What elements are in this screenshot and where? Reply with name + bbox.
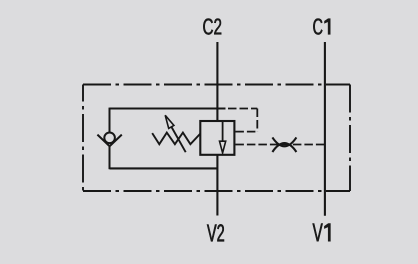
enclosure dashed boundary top edge bbox=[83, 84, 350, 86]
relief valve flow arrowhead bbox=[220, 141, 226, 153]
port label V2 bbox=[207, 224, 224, 241]
pilot line dashed: return into valve body bbox=[235, 131, 257, 133]
orifice lower arc bbox=[272, 143, 296, 152]
port label V1 bbox=[313, 224, 331, 242]
relief valve flow arrow shaft bbox=[222, 121, 224, 142]
pilot line dashed: top run from junction bbox=[228, 108, 257, 110]
enclosure dashed boundary left edge bbox=[82, 85, 84, 192]
wire: check valve upper stem bbox=[109, 108, 111, 133]
port line C2-V2 bbox=[216, 42, 218, 216]
adjustable spring bbox=[152, 133, 200, 145]
orifice upper arc bbox=[272, 137, 296, 146]
port label C1 bbox=[313, 19, 330, 35]
check valve seat bbox=[97, 135, 121, 147]
port label C2 bbox=[203, 19, 221, 35]
wire: check valve lower stem bbox=[109, 146, 111, 170]
port line C1-V1 bbox=[324, 42, 326, 216]
pilot line dashed: right vertical drop bbox=[256, 109, 258, 132]
enclosure dashed boundary bottom edge bbox=[83, 190, 350, 192]
adjustment arrowhead bbox=[165, 115, 174, 128]
relief valve body U1 bbox=[200, 121, 234, 155]
wire: bottom solid from check valve to C2 line bbox=[110, 167, 218, 169]
adjustment arrow shaft bbox=[171, 127, 185, 153]
pilot line dashed to orifice and C1 bbox=[235, 144, 325, 146]
enclosure dashed boundary right edge bbox=[349, 85, 351, 192]
check valve ball bbox=[104, 133, 115, 144]
wire: top solid from check valve to C2 line junction bbox=[110, 107, 226, 109]
